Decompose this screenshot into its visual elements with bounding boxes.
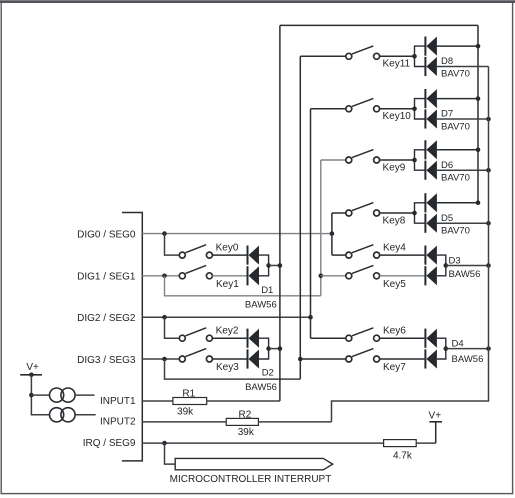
wire D7 common cathode xyxy=(415,99,426,119)
svg-text:D6: D6 xyxy=(441,160,453,171)
junction INPUT1 line at D2 xyxy=(278,346,283,351)
junction rail B at D3 xyxy=(486,263,491,268)
label D3 xyxy=(449,255,461,266)
diode pair D5 (BAV70) bottom xyxy=(425,214,437,233)
svg-text:Key1: Key1 xyxy=(216,279,239,290)
svg-text:MICROCONTROLLER INTERRUPT: MICROCONTROLLER INTERRUPT xyxy=(170,474,332,485)
wire V+ to current source I1 xyxy=(31,394,49,396)
junction INPUT1 line at D1 xyxy=(278,263,283,268)
diode pair D6 (BAV70) bottom xyxy=(425,161,437,180)
svg-text:Key8: Key8 xyxy=(383,215,406,226)
svg-text:Key2: Key2 xyxy=(216,326,239,337)
label Key8 xyxy=(383,215,406,226)
label D7 BAV70 xyxy=(441,121,470,132)
svg-text:39k: 39k xyxy=(177,407,194,418)
svg-text:R2: R2 xyxy=(239,410,252,421)
wire D7 bottom anode to rail B xyxy=(437,118,489,120)
label D6 BAV70 xyxy=(441,173,470,184)
diode pair D1 (BAW56) top xyxy=(248,246,260,265)
junction V+ left xyxy=(29,373,34,378)
label MICROCONTROLLER INTERRUPT xyxy=(170,474,332,485)
label D3 BAW56 xyxy=(449,269,481,280)
wire DIG2 row xyxy=(142,316,310,318)
wire D8 top anode to rail A xyxy=(437,45,478,47)
microcontroller interrupt tag xyxy=(175,458,333,469)
wire D4 common anode xyxy=(437,338,446,359)
svg-text:R1: R1 xyxy=(182,388,195,399)
junction DIG0 at Key8/Key4 riser xyxy=(330,231,335,236)
wire Key9 feed xyxy=(321,159,346,161)
wire D1 anode to INPUT1 line xyxy=(269,264,280,266)
junction DIG1 at ext branch xyxy=(162,274,167,279)
svg-text:V+: V+ xyxy=(26,362,39,373)
junction DIG2 at Key10/Key6 riser xyxy=(308,315,313,320)
label V+ right xyxy=(429,411,442,422)
wire I2 to INPUT2 label xyxy=(75,414,96,416)
label D6 xyxy=(441,160,453,171)
switch Key1 xyxy=(179,265,212,278)
switch Key5 xyxy=(346,265,380,278)
junction DIG0 at Key0 branch xyxy=(162,231,167,236)
wire DIG0 row xyxy=(142,233,332,235)
label R3 value 4.7k xyxy=(393,451,413,462)
label D1 BAW56 xyxy=(245,300,277,311)
label Key1 xyxy=(216,279,239,290)
wire I1 to INPUT1 label xyxy=(75,394,94,396)
junction rail A at D8 xyxy=(476,44,481,49)
svg-text:D5: D5 xyxy=(441,213,453,224)
switch Key11 xyxy=(346,46,380,59)
switch Key2 xyxy=(179,328,212,341)
wire D3 anode to rail B xyxy=(446,264,489,266)
svg-text:Key6: Key6 xyxy=(383,325,406,336)
wire rail B (anode bus to INPUT2) xyxy=(332,67,489,422)
switch Key0 xyxy=(179,245,212,258)
label Key7 xyxy=(383,362,406,373)
svg-text:Key4: Key4 xyxy=(383,242,406,253)
svg-text:4.7k: 4.7k xyxy=(393,451,413,462)
svg-text:BAW56: BAW56 xyxy=(245,300,277,311)
svg-text:D4: D4 xyxy=(452,339,464,350)
label R1 xyxy=(182,388,195,399)
label D8 xyxy=(441,56,453,67)
junction rail A at D5 xyxy=(476,201,481,206)
junction D8 cathode xyxy=(412,54,417,59)
label Key6 xyxy=(383,325,406,336)
label Key4 xyxy=(383,242,406,253)
label D2 xyxy=(262,367,274,378)
wire Key3 to D2 xyxy=(212,358,246,360)
wire Key11/Key7 riser xyxy=(299,56,301,379)
svg-text:Key7: Key7 xyxy=(383,362,406,373)
wire DIG1 row xyxy=(142,275,179,277)
wire D1 common anode xyxy=(259,255,269,276)
wire D5 top anode to rail A xyxy=(437,202,478,204)
diode pair D3 (BAW56) bottom xyxy=(425,266,437,285)
diode pair D4 (BAW56) bottom xyxy=(425,349,437,368)
label D1 xyxy=(261,285,273,296)
junction D4 anode xyxy=(444,346,449,351)
svg-text:INPUT2: INPUT2 xyxy=(100,416,136,427)
svg-text:D2: D2 xyxy=(262,367,274,378)
diode pair D2 (BAW56) bottom xyxy=(248,349,260,368)
wire Key5 feed xyxy=(321,275,346,277)
pin label DIG1 / SEG1 xyxy=(77,272,136,283)
label D2 BAW56 xyxy=(245,382,277,393)
junction D1 anode xyxy=(266,263,271,268)
wire DIG1 extension xyxy=(165,276,321,296)
resistor R1 xyxy=(173,398,207,405)
wire DIG3 row xyxy=(142,358,179,360)
junction rail A at D7 xyxy=(476,96,481,101)
switch Key9 xyxy=(346,150,380,163)
svg-text:Key3: Key3 xyxy=(216,362,239,373)
junction V+ branch to I1 xyxy=(29,393,34,398)
wire Key1 to D1 xyxy=(212,275,246,277)
label Key9 xyxy=(383,162,406,173)
wire INPUT1 pin to R1 xyxy=(142,400,173,402)
pin label DIG2 / SEG2 xyxy=(77,313,136,324)
diode pair D8 (BAV70) top xyxy=(425,37,437,56)
svg-text:D3: D3 xyxy=(449,255,461,266)
svg-text:BAV70: BAV70 xyxy=(441,226,470,237)
wire IRQ drop to tag xyxy=(165,443,176,464)
label R2 value 39k xyxy=(238,427,255,438)
label D4 BAW56 xyxy=(452,354,484,365)
svg-text:Key0: Key0 xyxy=(216,243,239,254)
label Key10 xyxy=(383,111,412,122)
wire Key11 feed xyxy=(300,55,346,57)
svg-text:IRQ / SEG9: IRQ / SEG9 xyxy=(83,438,136,449)
current source I1 (INPUT1 bias) xyxy=(50,388,76,402)
diode pair D7 (BAV70) top xyxy=(425,89,437,108)
label Key3 xyxy=(216,362,239,373)
wire Key8/Key4 riser xyxy=(331,213,333,255)
wire Key0 to D1 xyxy=(212,254,246,256)
wire D5 bottom anode to rail B xyxy=(437,222,489,224)
wire Key9 to D6 junction xyxy=(380,159,415,161)
wire Key7 feed xyxy=(300,358,346,360)
label D5 xyxy=(441,213,453,224)
diode pair D8 (BAV70) bottom xyxy=(425,57,437,76)
wire Key8 feed xyxy=(332,212,346,214)
junction rail B at D4 xyxy=(486,346,491,351)
junction D2 anode xyxy=(266,346,271,351)
diode pair D4 (BAW56) top xyxy=(425,329,437,348)
power V+ right riser xyxy=(435,422,437,443)
wire rail A (anode bus) xyxy=(477,25,479,202)
junction IRQ at tag branch xyxy=(162,441,167,446)
resistor R3 (4.7k pullup) xyxy=(384,440,417,447)
label Key5 xyxy=(383,279,406,290)
wire D3 common anode xyxy=(437,255,446,276)
svg-text:Key9: Key9 xyxy=(383,162,406,173)
power V+ right rail bar xyxy=(429,421,442,423)
diode pair D1 (BAW56) bottom xyxy=(248,266,260,285)
wire Key7 to D4 xyxy=(380,358,425,360)
svg-text:DIG2 / SEG2: DIG2 / SEG2 xyxy=(77,313,136,324)
svg-text:DIG0 / SEG0: DIG0 / SEG0 xyxy=(77,230,136,241)
wire D7 top anode to rail A xyxy=(437,98,478,100)
label D7 xyxy=(441,109,453,120)
wire Key2 to D2 xyxy=(212,337,246,339)
wire DIG3 extension xyxy=(165,359,301,379)
wire INPUT2 pin to R2 xyxy=(142,421,226,423)
wire Key11 to D8 junction xyxy=(380,55,415,57)
pin label DIG3 / SEG3 xyxy=(77,355,136,366)
svg-text:BAV70: BAV70 xyxy=(441,121,470,132)
svg-text:D7: D7 xyxy=(441,109,453,120)
wire R3 to V+ riser xyxy=(416,442,436,444)
wire DIG0 drop to Key0 xyxy=(165,234,180,256)
wire top link xyxy=(280,24,478,26)
svg-text:D1: D1 xyxy=(261,285,273,296)
pin label IRQ / SEG9 xyxy=(83,438,136,449)
junction Key7 tap xyxy=(298,357,303,362)
power V+ left label xyxy=(26,362,39,373)
wire Key4 to D3 xyxy=(380,254,425,256)
label D4 xyxy=(452,339,464,350)
wire Key10 to D7 junction xyxy=(380,108,415,110)
svg-text:V+: V+ xyxy=(429,411,442,422)
svg-text:D8: D8 xyxy=(441,56,453,67)
wire IRQ pin row xyxy=(142,442,383,444)
diode pair D5 (BAV70) top xyxy=(425,193,437,212)
wire Key10/Key6 riser xyxy=(310,109,312,338)
svg-text:DIG1 / SEG1: DIG1 / SEG1 xyxy=(77,272,136,283)
diode pair D3 (BAW56) top xyxy=(425,246,437,265)
wire Key5 to D3 xyxy=(380,275,425,277)
wire Key6 feed xyxy=(311,337,346,339)
junction rail A at D6 xyxy=(476,148,481,153)
junction Key5 tap xyxy=(319,274,324,279)
svg-text:BAW56: BAW56 xyxy=(452,354,484,365)
junction rail B at D5 xyxy=(486,221,491,226)
IC edge bracket xyxy=(122,213,142,461)
label D8 BAV70 xyxy=(441,69,470,80)
wire D5 common cathode xyxy=(415,203,426,223)
wire Key6 to D4 xyxy=(380,337,425,339)
diode pair D6 (BAV70) top xyxy=(425,140,437,159)
switch Key10 xyxy=(346,98,380,111)
label Key2 xyxy=(216,326,239,337)
power V+ left rail bar xyxy=(20,374,42,376)
svg-text:Key10: Key10 xyxy=(383,111,412,122)
svg-text:BAV70: BAV70 xyxy=(441,173,470,184)
switch Key6 xyxy=(346,328,380,341)
diode pair D7 (BAV70) bottom xyxy=(425,109,437,128)
label Key0 xyxy=(216,243,239,254)
wire DIG2 drop to Key2 xyxy=(165,317,180,338)
label R1 value 39k xyxy=(177,407,194,418)
svg-text:INPUT1: INPUT1 xyxy=(100,396,136,407)
junction D5 cathode xyxy=(412,211,417,216)
wire V+ left riser xyxy=(31,375,49,415)
wire D6 common cathode xyxy=(415,150,426,170)
wire D8 common cathode xyxy=(415,46,426,66)
wire Key9/Key5 riser xyxy=(320,160,322,296)
wire D2 common anode xyxy=(259,338,269,359)
pin label INPUT1 xyxy=(100,396,136,407)
svg-text:Key5: Key5 xyxy=(383,279,406,290)
wire Key4 feed xyxy=(332,254,346,256)
wire D6 top anode to rail A xyxy=(437,149,478,151)
wire D2 anode to INPUT1 line xyxy=(269,348,280,350)
junction D6 cathode xyxy=(412,158,417,163)
wire D4 anode to rail B xyxy=(446,348,489,350)
junction DIG2 at Key2 branch xyxy=(162,315,167,320)
junction D3 anode xyxy=(444,263,449,268)
junction DIG3 at ext branch xyxy=(162,357,167,362)
label D5 BAV70 xyxy=(441,226,470,237)
switch Key7 xyxy=(346,349,380,362)
resistor R2 xyxy=(226,418,258,425)
svg-text:BAV70: BAV70 xyxy=(441,69,470,80)
svg-text:BAW56: BAW56 xyxy=(245,382,277,393)
svg-text:39k: 39k xyxy=(238,427,255,438)
svg-text:BAW56: BAW56 xyxy=(449,269,481,280)
wire R2 to jog riser xyxy=(258,421,331,423)
label R2 xyxy=(239,410,252,421)
pin label INPUT2 xyxy=(100,416,136,427)
junction D7 cathode xyxy=(412,107,417,112)
switch Key4 xyxy=(346,245,380,258)
wire Key8 to D5 junction xyxy=(380,212,415,214)
wire D6 bottom anode to rail B xyxy=(437,169,489,171)
wire INPUT1 riser xyxy=(279,25,281,401)
current source I2 (INPUT2 bias) xyxy=(50,408,76,422)
junction rail B at D7 xyxy=(486,117,491,122)
label Key11 xyxy=(383,59,411,70)
wire D8 bottom anode to rail B xyxy=(437,66,489,68)
wire Key10 feed xyxy=(311,108,346,110)
pin label DIG0 / SEG0 xyxy=(77,230,136,241)
svg-text:Key11: Key11 xyxy=(383,59,411,70)
diode pair D2 (BAW56) top xyxy=(248,329,260,348)
junction rail B at D6 xyxy=(486,168,491,173)
switch Key8 xyxy=(346,203,380,216)
svg-text:DIG3 / SEG3: DIG3 / SEG3 xyxy=(77,355,136,366)
switch Key3 xyxy=(179,349,212,362)
wire R1 to INPUT1 riser xyxy=(207,400,280,402)
